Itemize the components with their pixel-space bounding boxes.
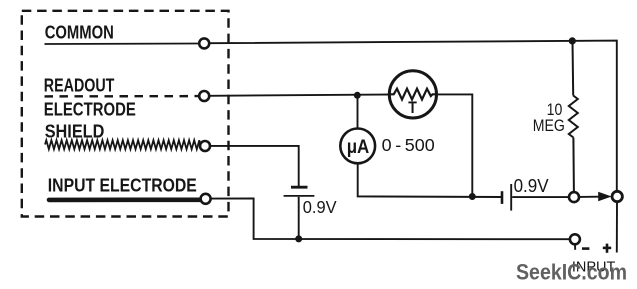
wire: COMMON underline to terminal bbox=[45, 43, 200, 46]
svg-text:INPUT ELECTRODE: INPUT ELECTRODE bbox=[48, 174, 197, 195]
battery B2 0.9V (right) short thick plate bbox=[501, 191, 504, 204]
meter M2 thermocouple element circle bbox=[389, 71, 436, 118]
wire: readout line to thermo meter bbox=[209, 95, 389, 96]
wire: minus terminal stub bbox=[574, 244, 576, 250]
wire: battery B1 to bottom rail bbox=[298, 197, 300, 239]
wire: READOUT dashed lead bbox=[45, 95, 200, 98]
probe enclosure dashed box bbox=[22, 11, 229, 217]
wire: junction down to microammeter bbox=[357, 95, 359, 128]
node: READOUT terminal circle bbox=[199, 91, 209, 101]
svg-text:0 - 500: 0 - 500 bbox=[382, 135, 435, 155]
arrowhead bbox=[598, 192, 611, 201]
junction: top rail / 10 MEG resistor bbox=[569, 37, 576, 44]
junction: readout / microammeter branch bbox=[354, 92, 361, 99]
svg-text:ELECTRODE: ELECTRODE bbox=[44, 99, 136, 119]
node: plus output terminal circle bbox=[612, 191, 622, 201]
svg-text:MEG: MEG bbox=[533, 116, 565, 135]
node: COMMON terminal circle bbox=[199, 38, 209, 48]
label plus sign bbox=[603, 247, 611, 250]
wire: shield to battery top bbox=[210, 146, 299, 186]
wire: microammeter down and bottom meter wire bbox=[358, 164, 502, 198]
junction: battery B1 / bottom rail bbox=[295, 235, 302, 242]
wire: output node to plus node with arrow bbox=[579, 196, 600, 198]
svg-text:READOUT: READOUT bbox=[44, 75, 115, 95]
wire: input electrode to bottom rail bbox=[211, 198, 570, 239]
wire: COMMON top rail to right bbox=[209, 41, 617, 192]
wire: SHIELD zigzag lead bbox=[45, 140, 200, 149]
svg-text:0.9V: 0.9V bbox=[514, 175, 550, 196]
svg-text:μA: μA bbox=[347, 136, 370, 158]
svg-text:SHIELD: SHIELD bbox=[45, 121, 105, 141]
meter M1 microammeter circle bbox=[340, 129, 375, 164]
svg-text:T: T bbox=[408, 98, 417, 117]
label minus sign bbox=[582, 247, 589, 250]
node: INPUT ELECTRODE terminal circle bbox=[201, 194, 211, 204]
resistor R1 10 MEG bbox=[569, 41, 578, 192]
battery B2 long thin plate bbox=[510, 184, 512, 211]
wire: battery B2 to output node bbox=[512, 196, 569, 198]
svg-text:0.9V: 0.9V bbox=[303, 197, 337, 217]
battery B1 long thin plate bbox=[284, 195, 315, 197]
wire: thick input electrode bar bbox=[49, 198, 201, 203]
svg-text:SeekIC.com: SeekIC.com bbox=[516, 260, 627, 285]
wire: plus node down stub bbox=[616, 202, 618, 253]
battery B1 0.9V (left) short thick plate bbox=[291, 186, 308, 189]
junction: thermo branch / bottom meter wire bbox=[469, 193, 476, 200]
wire: thermo right side down to bottom meter wire bbox=[437, 94, 473, 196]
node: resistor/battery output terminal circle bbox=[569, 192, 579, 202]
svg-text:COMMON: COMMON bbox=[45, 22, 114, 42]
node: minus input terminal circle bbox=[570, 234, 580, 244]
thermo element zigzag bbox=[391, 89, 436, 100]
node: SHIELD terminal circle bbox=[200, 141, 210, 151]
